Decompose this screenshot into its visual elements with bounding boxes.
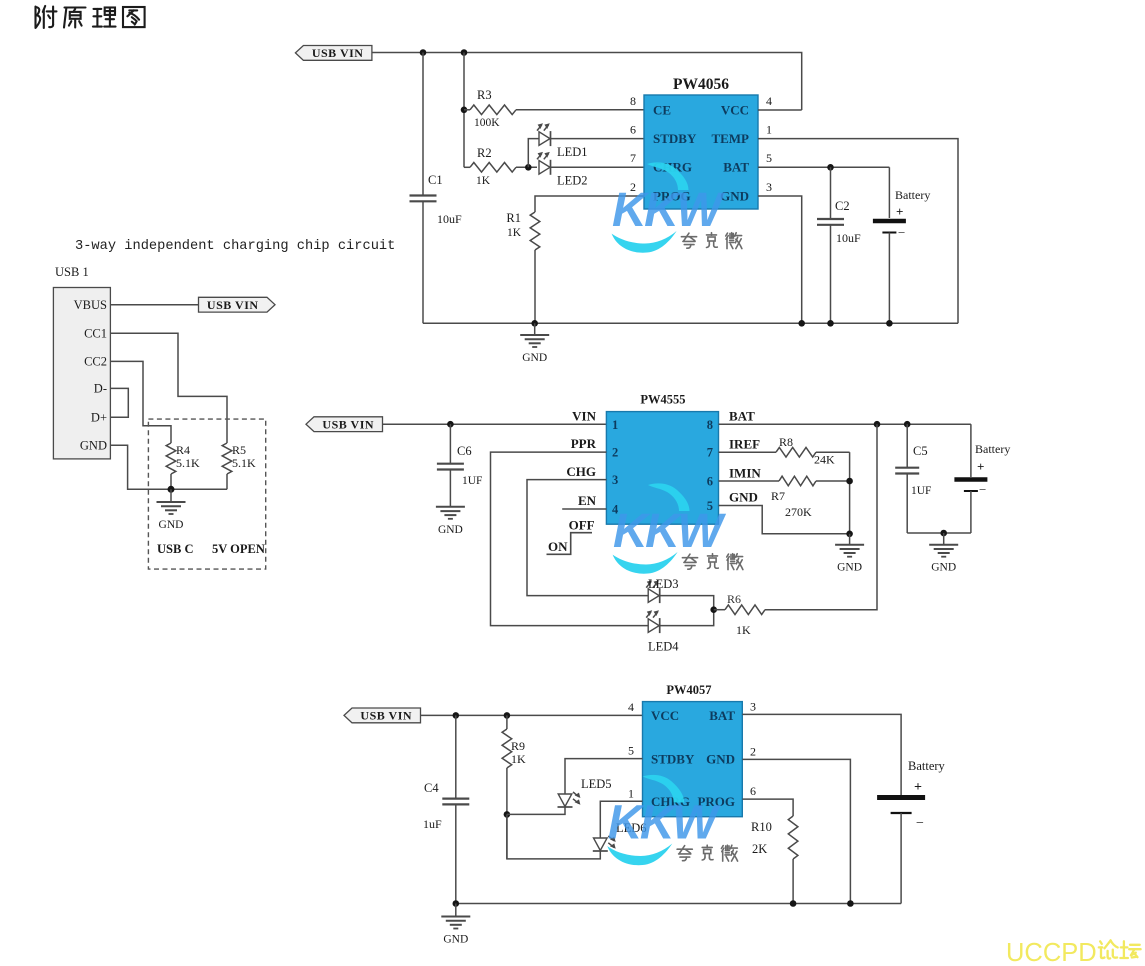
svg-text:GND: GND xyxy=(80,439,107,453)
junction xyxy=(168,486,175,493)
svg-text:USB VIN: USB VIN xyxy=(312,46,364,60)
switch annotation OFF/ON xyxy=(547,518,595,555)
ground symbol (bottom circuit) xyxy=(441,904,470,946)
wire R6 to BAT rail xyxy=(765,424,877,610)
wire R3/R2 branch vertical xyxy=(463,53,465,168)
wire D- D+ loop xyxy=(110,388,128,417)
svg-text:1K: 1K xyxy=(511,752,526,766)
svg-text:LED4: LED4 xyxy=(648,640,679,654)
svg-text:LED5: LED5 xyxy=(581,777,612,791)
resistor R6 1K xyxy=(714,592,765,637)
svg-text:PW4056: PW4056 xyxy=(673,76,729,93)
wire TEMP pin 1 to right rail xyxy=(758,139,958,324)
wire CC2 to R4 xyxy=(110,361,171,443)
svg-text:R3: R3 xyxy=(477,88,492,102)
junction xyxy=(504,712,511,719)
svg-text:+: + xyxy=(896,204,903,219)
svg-text:R10: R10 xyxy=(751,820,772,834)
svg-text:C4: C4 xyxy=(424,781,439,795)
svg-text:5.1K: 5.1K xyxy=(176,456,200,470)
svg-text:10uF: 10uF xyxy=(437,212,462,226)
LED LED5 xyxy=(558,777,612,807)
chip U2 PW4555 xyxy=(566,393,761,525)
svg-text:1UF: 1UF xyxy=(462,475,482,487)
wire LED5 cathode to R9 junction xyxy=(507,807,565,814)
svg-text:2: 2 xyxy=(750,745,756,759)
wire R3 to CE pin 8 xyxy=(516,109,644,111)
svg-text:KKW: KKW xyxy=(613,505,726,558)
svg-text:USB VIN: USB VIN xyxy=(360,709,412,723)
junction xyxy=(798,320,805,327)
svg-text:R4: R4 xyxy=(176,443,190,457)
svg-text:1K: 1K xyxy=(476,175,491,187)
wire R8/R7 junction vertical xyxy=(849,452,851,534)
svg-text:7: 7 xyxy=(707,446,713,460)
svg-text:5: 5 xyxy=(628,744,634,758)
svg-text:VCC: VCC xyxy=(651,708,679,723)
svg-text:R1: R1 xyxy=(506,211,521,225)
svg-text:Battery: Battery xyxy=(908,759,946,773)
junction xyxy=(847,900,854,907)
junction xyxy=(531,320,538,327)
wire R2 to LED2 xyxy=(516,166,537,168)
svg-text:1uF: 1uF xyxy=(423,817,442,831)
svg-text:Battery: Battery xyxy=(975,442,1010,456)
svg-text:CE: CE xyxy=(653,103,671,118)
svg-text:LED1: LED1 xyxy=(557,145,588,159)
svg-text:KKW: KKW xyxy=(612,184,725,237)
watermark UCCPD forum xyxy=(1006,939,1141,966)
svg-text:CC2: CC2 xyxy=(84,355,107,369)
battery BT3 xyxy=(877,759,945,904)
wire VBUS to net label xyxy=(110,304,198,306)
svg-text:USB VIN: USB VIN xyxy=(322,418,374,432)
svg-text:8: 8 xyxy=(707,418,713,432)
chip U1 PW4056 xyxy=(630,76,772,209)
svg-text:−: − xyxy=(916,816,924,831)
svg-text:GND: GND xyxy=(720,189,749,204)
watermark logo KKW xyxy=(613,483,743,573)
svg-text:1K: 1K xyxy=(736,623,751,637)
junction xyxy=(525,164,532,171)
junction xyxy=(940,530,947,537)
svg-text:8: 8 xyxy=(630,94,636,108)
net label USB VIN (middle) xyxy=(306,417,383,432)
wire LED2 to CHRG pin 7 xyxy=(551,166,645,168)
junction xyxy=(447,421,454,428)
svg-text:R5: R5 xyxy=(232,443,246,457)
svg-text:VCC: VCC xyxy=(721,103,749,118)
junction xyxy=(790,900,797,907)
svg-text:IMIN: IMIN xyxy=(729,466,761,481)
wire top rail USB VIN to VCC riser xyxy=(372,53,802,111)
svg-text:GND: GND xyxy=(522,352,547,364)
svg-text:GND: GND xyxy=(706,752,735,767)
wire VCC pin 4 (joined to riser above) xyxy=(758,109,802,111)
wire CHG pin 3 to LED3 xyxy=(527,480,648,596)
svg-text:CC1: CC1 xyxy=(84,327,107,341)
svg-text:1K: 1K xyxy=(507,227,522,239)
connector USB 1 xyxy=(53,265,110,459)
svg-text:BAT: BAT xyxy=(729,409,755,424)
svg-text:PW4057: PW4057 xyxy=(666,683,711,697)
svg-text:D+: D+ xyxy=(91,411,107,425)
wire BAT pin 5 to battery xyxy=(758,166,889,168)
junction xyxy=(461,107,468,114)
svg-text:5: 5 xyxy=(766,151,772,165)
wire GND pin 3 down xyxy=(758,196,802,323)
wire BAT pin 8 to battery xyxy=(719,423,971,425)
junction xyxy=(874,421,881,428)
wire BAT pin 3 to battery xyxy=(742,714,901,795)
svg-text:6: 6 xyxy=(750,784,756,798)
svg-text:R2: R2 xyxy=(477,146,492,160)
junction xyxy=(710,606,717,613)
junction xyxy=(904,421,911,428)
svg-text:1: 1 xyxy=(612,418,618,432)
svg-text:LED3: LED3 xyxy=(648,577,679,591)
wire EN pin 4 xyxy=(562,508,606,510)
svg-text:R8: R8 xyxy=(779,435,793,449)
junction xyxy=(827,320,834,327)
svg-text:KKW: KKW xyxy=(608,797,721,850)
wire C5 to battery bottom xyxy=(907,532,971,534)
svg-text:+: + xyxy=(914,780,922,795)
wire GND pin 2 down xyxy=(742,759,850,903)
ground symbol (top circuit) xyxy=(520,323,549,364)
svg-text:R6: R6 xyxy=(727,592,741,606)
svg-text:100K: 100K xyxy=(474,117,500,129)
ground symbol (R7/R8) xyxy=(835,534,864,574)
junction xyxy=(827,164,834,171)
svg-text:CHG: CHG xyxy=(566,464,596,479)
svg-text:PPR: PPR xyxy=(571,436,597,451)
net label USB VIN (bottom) xyxy=(344,708,421,723)
capacitor C4 1uF xyxy=(423,715,469,903)
svg-text:R9: R9 xyxy=(511,739,525,753)
svg-text:C1: C1 xyxy=(428,173,443,187)
junction xyxy=(461,49,468,56)
svg-text:24K: 24K xyxy=(814,453,835,467)
svg-text:D-: D- xyxy=(94,382,107,396)
svg-text:GND: GND xyxy=(931,562,956,574)
wire GND pin 5 route xyxy=(719,506,850,534)
svg-text:C2: C2 xyxy=(835,199,850,213)
dashed box USB C 5V OPEN xyxy=(148,419,265,569)
junction xyxy=(846,478,853,485)
resistor R2 1K xyxy=(464,146,516,187)
wire LED1 anode branch xyxy=(528,139,539,168)
svg-text:EN: EN xyxy=(578,493,597,508)
svg-text:3: 3 xyxy=(612,473,618,487)
resistor R7 270K xyxy=(719,476,850,519)
resistor R9 1K xyxy=(502,715,526,859)
svg-text:OFF: OFF xyxy=(569,518,595,533)
svg-text:GND: GND xyxy=(438,524,463,536)
wire ground rail (bottom circuit) xyxy=(456,903,901,905)
svg-text:5.1K: 5.1K xyxy=(232,456,256,470)
net label USB VIN (usb) xyxy=(199,297,276,312)
svg-text:UCCPD: UCCPD xyxy=(1006,939,1097,966)
wire PROG pin 2 to R1 xyxy=(535,196,644,212)
svg-text:−: − xyxy=(979,482,986,497)
svg-text:USB 1: USB 1 xyxy=(55,265,89,279)
svg-text:STDBY: STDBY xyxy=(653,131,697,146)
resistor R8 24K xyxy=(719,435,850,467)
wire CC1 to R5 xyxy=(110,333,227,443)
svg-text:GND: GND xyxy=(159,519,184,531)
ground symbol (battery 2) xyxy=(929,533,958,574)
capacitor C2 10uF xyxy=(817,167,861,323)
svg-text:IREF: IREF xyxy=(729,437,760,452)
svg-text:1: 1 xyxy=(766,123,772,137)
LED LED4 xyxy=(646,610,679,653)
wire R1 to ground rail xyxy=(534,250,536,323)
svg-text:R7: R7 xyxy=(771,489,785,503)
svg-text:6: 6 xyxy=(707,475,713,489)
LED LED2 xyxy=(537,152,588,188)
svg-text:STDBY: STDBY xyxy=(651,752,695,767)
svg-text:USB VIN: USB VIN xyxy=(207,298,259,312)
junction xyxy=(453,712,460,719)
resistor R1 1K xyxy=(506,211,539,250)
svg-text:−: − xyxy=(898,225,905,240)
svg-text:+: + xyxy=(977,459,984,474)
svg-text:Battery: Battery xyxy=(895,188,930,202)
svg-text:1UF: 1UF xyxy=(911,485,931,497)
capacitor C6 1UF xyxy=(437,424,483,507)
svg-text:VIN: VIN xyxy=(572,409,596,424)
wire PROG pin 6 to R10 xyxy=(742,799,793,816)
ground symbol (USB section) xyxy=(157,489,186,531)
svg-text:4: 4 xyxy=(628,700,634,714)
watermark logo KKW xyxy=(612,162,742,252)
wire LED1 to STDBY pin 6 xyxy=(551,138,645,140)
battery BT2 xyxy=(954,424,1010,533)
capacitor C1 xyxy=(410,53,463,324)
svg-text:C5: C5 xyxy=(913,444,928,458)
svg-text:C6: C6 xyxy=(457,444,472,458)
battery BT1 xyxy=(873,167,930,323)
svg-text:4: 4 xyxy=(766,94,772,108)
wire USB VIN to VIN pin 1 xyxy=(383,423,607,425)
svg-text:2: 2 xyxy=(612,446,618,460)
junction xyxy=(420,49,427,56)
svg-text:TEMP: TEMP xyxy=(711,131,749,146)
svg-text:VBUS: VBUS xyxy=(74,298,107,312)
wire GND pin to ground rail xyxy=(110,445,227,489)
resistor R5 5.1K xyxy=(222,443,256,489)
net label USB VIN (top) xyxy=(295,46,372,61)
junction xyxy=(453,900,460,907)
watermark logo KKW xyxy=(607,775,737,865)
junction xyxy=(504,811,511,818)
svg-text:3-way independent charging chi: 3-way independent charging chip circuit xyxy=(75,239,395,254)
svg-text:7: 7 xyxy=(630,151,636,165)
junction xyxy=(886,320,893,327)
wire LED6 cathode loop to R9 junction xyxy=(507,814,600,859)
ground symbol (C6) xyxy=(436,507,465,536)
junction xyxy=(846,531,853,538)
svg-text:3: 3 xyxy=(750,700,756,714)
svg-text:GND: GND xyxy=(837,562,862,574)
svg-text:USB C: USB C xyxy=(157,542,193,556)
capacitor C5 1UF xyxy=(895,424,931,533)
LED LED1 xyxy=(537,123,588,159)
svg-text:3: 3 xyxy=(766,180,772,194)
resistor R10 2K xyxy=(751,816,798,904)
page title 附原理图 xyxy=(36,6,145,28)
svg-text:BAT: BAT xyxy=(709,708,735,723)
resistor R4 5.1K xyxy=(166,443,200,489)
svg-text:GND: GND xyxy=(443,934,468,946)
wire USB VIN to VCC pin 4 xyxy=(421,714,643,716)
svg-text:LED2: LED2 xyxy=(557,174,588,188)
wire CHRG pin 1 to LED6 xyxy=(600,801,642,838)
svg-text:BAT: BAT xyxy=(723,160,749,175)
svg-text:2K: 2K xyxy=(752,842,767,856)
svg-text:GND: GND xyxy=(729,490,758,505)
wire PPR pin 2 to LED4 xyxy=(491,452,649,625)
chip U3 PW4057 xyxy=(628,683,756,817)
svg-text:PW4555: PW4555 xyxy=(640,393,685,407)
LED LED3 xyxy=(646,577,678,603)
svg-text:10uF: 10uF xyxy=(836,231,861,245)
svg-text:ON: ON xyxy=(548,539,568,554)
wire STDBY pin 5 to LED5 xyxy=(565,759,643,794)
svg-text:6: 6 xyxy=(630,123,636,137)
resistor R3 100K xyxy=(464,88,516,129)
svg-text:5V OPEN: 5V OPEN xyxy=(212,542,265,556)
wire ground rail (top circuit) xyxy=(423,322,958,324)
LED LED6 xyxy=(593,821,647,851)
svg-text:270K: 270K xyxy=(785,505,812,519)
wire LED3/LED4 cathodes join xyxy=(660,596,714,626)
